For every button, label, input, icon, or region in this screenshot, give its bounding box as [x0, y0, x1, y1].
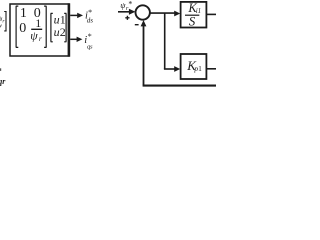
- matrix closing bracket: [44, 6, 46, 47]
- svg-text:r: r: [39, 34, 42, 43]
- wire: summing junction to Ki block: [150, 12, 176, 14]
- arrowhead into Ki block: [174, 11, 180, 17]
- arrowhead into summing junction: [129, 9, 136, 15]
- arrowhead output top: [77, 13, 83, 18]
- branch wire down to Kp block: [164, 13, 166, 69]
- summing junction circle: [136, 5, 150, 19]
- svg-text:1: 1: [20, 6, 27, 21]
- svg-text:*: *: [128, 0, 132, 8]
- u vector opening bracket: [51, 13, 53, 41]
- cut-off vector closing bracket: [4, 11, 6, 31]
- wire: Ki block output: [207, 13, 216, 15]
- svg-text:u: u: [54, 12, 60, 26]
- tiny cut mark at left edge: [0, 68, 1, 71]
- matrix opening bracket: [16, 6, 19, 47]
- feedback bottom wire: [143, 85, 216, 87]
- svg-text:1: 1: [60, 12, 66, 26]
- feedback vertical wire: [143, 25, 145, 85]
- wire: reference input: [118, 11, 131, 13]
- wire: Kp block output: [207, 68, 216, 70]
- wire: box output bottom: [70, 38, 78, 40]
- wire: box output top: [70, 14, 78, 16]
- proportional block Kp1: [181, 54, 207, 79]
- svg-text:0: 0: [19, 21, 26, 36]
- svg-text:w: w: [0, 23, 2, 29]
- wire: branch to Kp block: [164, 68, 177, 70]
- svg-text:S: S: [189, 14, 196, 29]
- plus sign: [125, 16, 129, 20]
- arrowhead into Kp block: [174, 66, 180, 72]
- fraction bar: [31, 28, 42, 30]
- svg-text:ψ: ψ: [30, 28, 38, 42]
- fraction bar of Ki1/S: [185, 14, 199, 16]
- arrowhead output bottom: [77, 37, 83, 42]
- svg-text:1: 1: [198, 64, 202, 73]
- svg-text:i1: i1: [196, 7, 201, 15]
- svg-text:2: 2: [60, 25, 66, 39]
- minus sign: [135, 24, 139, 26]
- svg-text:*: *: [88, 32, 92, 41]
- u vector closing bracket: [64, 13, 66, 41]
- arrowhead into summing junction bottom: [141, 20, 147, 26]
- decoupling matrix block box: [10, 4, 69, 56]
- svg-text:u: u: [54, 25, 60, 39]
- svg-text:qr: qr: [0, 77, 6, 86]
- svg-text:ds: ds: [87, 17, 94, 25]
- integrator block Ki1/S: [181, 2, 207, 28]
- box right edge (thick): [68, 3, 71, 56]
